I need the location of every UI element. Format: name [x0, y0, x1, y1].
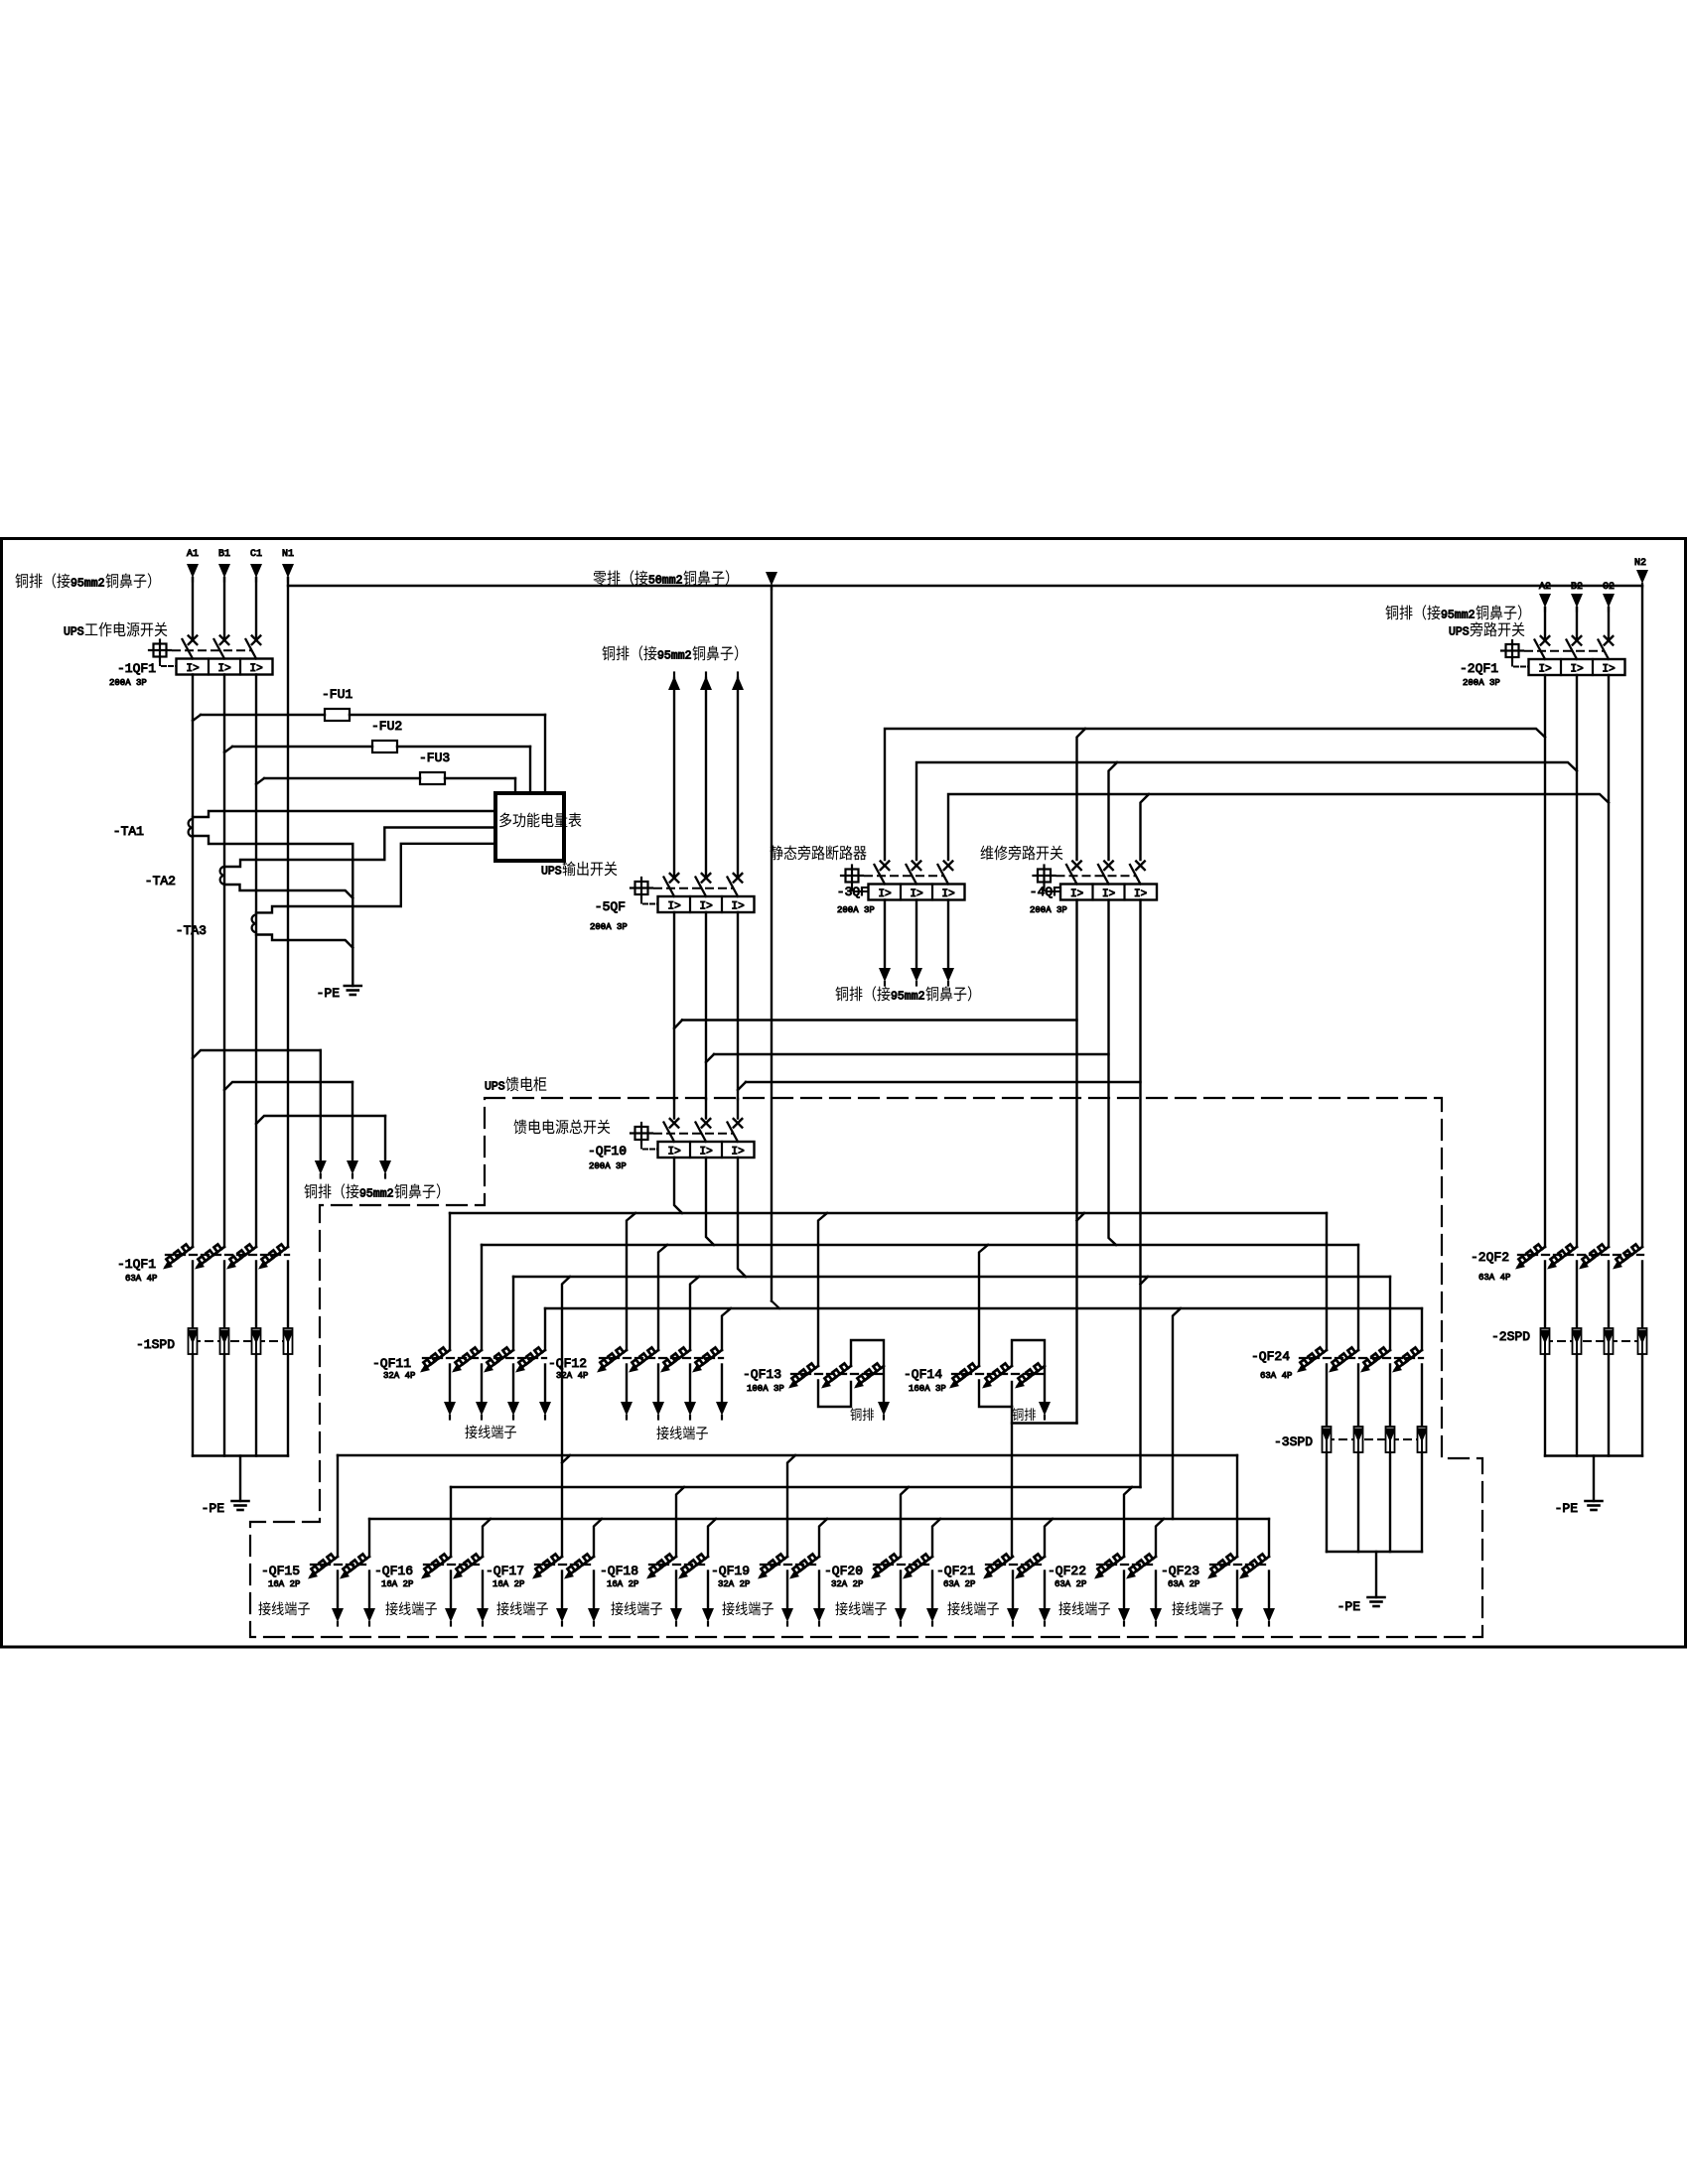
svg-text:-2SPD: -2SPD — [1491, 1329, 1530, 1344]
wire -1SPD to PE x=226 — [223, 1354, 225, 1456]
svg-text:-QF17: -QF17 — [486, 1564, 524, 1578]
dashed boundary UPS feed cabinet — [250, 1098, 1482, 1637]
svg-text:-FU1: -FU1 — [322, 687, 352, 702]
svg-text:-PE: -PE — [317, 986, 341, 1001]
wire QF24 output to SPD x=1368 — [1357, 1365, 1359, 1428]
wires -5QF outputs down to -QF10 — [673, 912, 675, 1099]
busbar label above -5QF — [602, 646, 615, 661]
wire bypass feed B (y=768) — [916, 762, 1577, 860]
svg-text:I>: I> — [1070, 888, 1083, 900]
wire C below -1QF1 — [255, 675, 257, 1248]
svg-text:-QF24: -QF24 — [1251, 1349, 1290, 1364]
breaker -QF16 16A 2P — [424, 1557, 451, 1576]
wire N1 drop full — [287, 578, 289, 1247]
wire bypass feed A (y=734) — [885, 729, 1545, 860]
wire riser busC to branch bus1 / QF17p1 — [562, 1277, 570, 1557]
wire -5QF out C tie — [738, 1082, 746, 1090]
label terminal QF11 — [465, 1425, 477, 1438]
breaker -QF13 100A 3P — [791, 1366, 818, 1386]
bypass feed arrow x=1556 — [1539, 594, 1551, 608]
svg-text:I>: I> — [187, 663, 200, 675]
wire QF24 output to SPD x=1400 — [1389, 1365, 1391, 1428]
QF13 output copper links — [818, 1381, 851, 1408]
breaker -QF19 32A 2P — [761, 1557, 787, 1576]
breaker -1QF1 63A 4P — [166, 1247, 193, 1267]
wire -4QF input A — [1077, 729, 1086, 860]
svg-text:-QF13: -QF13 — [743, 1367, 781, 1382]
svg-text:-FU2: -FU2 — [371, 719, 402, 734]
wire -QF15 output x=372 — [368, 1571, 370, 1611]
CT -TA1 — [189, 819, 193, 837]
wire QF20p1 — [901, 1487, 909, 1557]
label terminal -QF21 — [947, 1601, 959, 1615]
breaker -QF24 63A 4P — [1300, 1350, 1327, 1370]
wire QF14 output tie to bypass column — [1012, 1422, 1077, 1424]
wire -QF22 output x=1164 — [1155, 1571, 1157, 1611]
svg-text:200A 3P: 200A 3P — [1030, 905, 1067, 915]
bypass feed arrow x=1588 — [1571, 594, 1583, 608]
wire QF23p1 — [1236, 1455, 1238, 1557]
surge arrester -2SPD x=1588 — [1573, 1328, 1582, 1354]
wire -2SPD to PE x=1588 — [1576, 1354, 1578, 1456]
busbar label top-left — [15, 574, 28, 589]
svg-text:I>: I> — [1134, 888, 1147, 900]
svg-text:-1QF1: -1QF1 — [117, 1257, 156, 1272]
breaker -QF23 63A 2P — [1210, 1557, 1237, 1576]
breaker -QF17 16A 2P — [535, 1557, 562, 1576]
wire B below -1QF1 — [223, 675, 225, 1248]
wire -4QF out C column — [1139, 900, 1141, 1488]
wire -QF18 output x=681 — [675, 1571, 677, 1611]
wire -4QF input B — [1109, 762, 1118, 860]
svg-text:I>: I> — [1603, 664, 1616, 676]
svg-text:I>: I> — [700, 901, 713, 913]
N tap arrow x=777 — [766, 572, 777, 586]
label copper bar QF13 — [850, 1408, 861, 1421]
wire -QF16 output x=454 — [450, 1571, 452, 1611]
svg-text:200A 3P: 200A 3P — [1463, 678, 1500, 688]
wire -2SPD to PE x=1654 — [1641, 1354, 1643, 1456]
label terminal -QF17 — [496, 1601, 508, 1615]
-QF10 outputs — [674, 1158, 682, 1213]
fuse -FU2 — [224, 747, 232, 752]
wire QF11 output x=517 — [512, 1365, 514, 1404]
wire QF18p2 — [708, 1519, 716, 1557]
surge arrester -3SPD x=1400 — [1386, 1427, 1395, 1452]
surge arrester -2SPD x=1556 — [1541, 1328, 1550, 1354]
bus A phase — [450, 1212, 1327, 1214]
breaker -QF21 63A 2P — [986, 1557, 1013, 1576]
wire -QF21 output x=1020 — [1012, 1571, 1014, 1611]
jog chamfer bypass col at bus A — [1077, 1213, 1085, 1221]
svg-text:I>: I> — [879, 888, 892, 900]
feed arrow at x=290 — [282, 564, 294, 578]
svg-text:100A 3P: 100A 3P — [747, 1384, 784, 1394]
svg-text:200A 3P: 200A 3P — [837, 905, 875, 915]
wire QF11 pole feeds — [449, 1213, 451, 1350]
svg-text:200A 3P: 200A 3P — [589, 1161, 627, 1171]
wire QF16p2 — [483, 1519, 491, 1557]
svg-text:B1: B1 — [218, 549, 230, 560]
wire -QF20 output x=907 — [900, 1571, 902, 1611]
wire B1 drop — [223, 578, 225, 639]
svg-text:-QF16: -QF16 — [374, 1564, 413, 1578]
svg-text:95mm2: 95mm2 — [657, 650, 692, 663]
wire C1 drop — [255, 578, 257, 639]
svg-text:A2: A2 — [1539, 582, 1551, 593]
svg-text:32A 4P: 32A 4P — [383, 1371, 415, 1381]
wire — [223, 1262, 225, 1329]
wire -QF17 output x=566 — [561, 1571, 563, 1611]
svg-text:-PE: -PE — [202, 1501, 225, 1516]
bus C phase — [513, 1276, 1390, 1278]
wire — [705, 678, 707, 878]
label terminal -QF20 — [835, 1601, 847, 1615]
wire -4QF out B column — [1109, 900, 1117, 1246]
ground -PE (3SPD) — [1368, 1596, 1385, 1599]
wire QF17p2 — [594, 1519, 602, 1557]
wire — [673, 1099, 675, 1119]
svg-text:-QF11: -QF11 — [372, 1356, 411, 1371]
wire QF12 pole feeds — [627, 1213, 635, 1350]
wire riser busN to branch bus3 — [1173, 1308, 1181, 1519]
breaker -5QF 200A 3P UPS output switch — [670, 874, 679, 883]
N2 arrow — [1636, 570, 1648, 584]
breaker -4QF 200A 3P maintenance bypass — [1072, 862, 1081, 871]
wire QF15p1 — [337, 1455, 339, 1557]
wire N bus (zero bar) — [288, 585, 1642, 587]
wire QF24 output to SPD x=1432 — [1421, 1365, 1423, 1428]
label terminal -QF18 — [611, 1601, 623, 1615]
svg-text:UPS: UPS — [1449, 626, 1470, 639]
wire -QF19 output x=825 — [818, 1571, 820, 1611]
svg-text:63A 2P: 63A 2P — [943, 1579, 975, 1589]
svg-text:16A 2P: 16A 2P — [492, 1579, 524, 1589]
label terminal -QF23 — [1172, 1601, 1184, 1615]
svg-text:160A 3P: 160A 3P — [909, 1384, 946, 1394]
wire QF22p2 — [1156, 1519, 1164, 1557]
wire -3QF output to copper bar x=891 — [884, 900, 886, 970]
label copper bar QF14 — [1012, 1408, 1023, 1421]
wire -QF23 output x=1246 — [1236, 1571, 1238, 1611]
wire — [673, 678, 675, 878]
wire — [1544, 608, 1546, 640]
svg-text:C2: C2 — [1603, 582, 1615, 593]
svg-text:32A 4P: 32A 4P — [556, 1371, 588, 1381]
surge arrester link dashes -2SPD — [1545, 1340, 1642, 1342]
wire -2SPD to PE x=1620 — [1608, 1354, 1610, 1456]
breaker -2QF1 200A 3P — [1541, 636, 1550, 645]
label terminal -QF22 — [1058, 1601, 1070, 1615]
svg-text:-QF15: -QF15 — [261, 1564, 300, 1578]
feed arrow at x=194 — [187, 564, 199, 578]
svg-text:32A 2P: 32A 2P — [718, 1579, 750, 1589]
svg-text:32A 2P: 32A 2P — [831, 1579, 863, 1589]
CT -TA3 — [252, 915, 256, 933]
surge arrester link dashes -3SPD — [1327, 1438, 1422, 1440]
label terminal -QF19 — [722, 1601, 734, 1615]
svg-text:UPS: UPS — [541, 866, 562, 879]
svg-text:16A 2P: 16A 2P — [381, 1579, 413, 1589]
feed arrow at x=226 — [218, 564, 230, 578]
svg-text:B2: B2 — [1571, 582, 1583, 593]
svg-text:UPS: UPS — [64, 626, 84, 639]
surge arrester -1SPD x=258 — [252, 1328, 261, 1354]
breaker -3QF 200A 3P static bypass — [881, 862, 890, 871]
svg-text:I>: I> — [911, 888, 923, 900]
surge arrester -1SPD x=290 — [284, 1328, 293, 1354]
CT -TA2 — [220, 867, 224, 885]
wire QF24 output to SPD x=1336 — [1326, 1365, 1328, 1428]
wire QF11 output x=485 — [481, 1365, 483, 1404]
svg-text:-TA3: -TA3 — [176, 923, 207, 938]
breaker -QF20 32A 2P — [874, 1557, 901, 1576]
svg-text:I>: I> — [1539, 664, 1552, 676]
wire — [1576, 608, 1578, 640]
wire QF18p1 — [676, 1487, 684, 1557]
branch bus 2 — [451, 1486, 1141, 1488]
svg-text:-TA1: -TA1 — [113, 824, 144, 839]
jog chamfer riser at branch bus1 — [562, 1455, 570, 1463]
busbar label left cabinet — [304, 1184, 317, 1199]
svg-text:I>: I> — [942, 888, 955, 900]
surge arrester -3SPD x=1368 — [1354, 1427, 1363, 1452]
wire -QF20 output x=939 — [931, 1571, 933, 1611]
label terminal -QF16 — [385, 1601, 397, 1615]
ground -PE (right) — [1586, 1500, 1603, 1503]
svg-text:16A 2P: 16A 2P — [607, 1579, 638, 1589]
wire QF24 pole feeds — [1326, 1213, 1328, 1350]
svg-text:95mm2: 95mm2 — [891, 991, 925, 1004]
svg-text:-PE: -PE — [1337, 1599, 1361, 1614]
ground -PE (left) — [232, 1500, 249, 1503]
wire A1 drop — [192, 578, 194, 639]
svg-text:-2QF1: -2QF1 — [1460, 661, 1498, 676]
surge arrester -1SPD x=226 — [220, 1328, 229, 1354]
wire QF14/bypass tie down to QF21 — [1011, 1407, 1013, 1557]
svg-text:-4QF: -4QF — [1030, 885, 1060, 899]
svg-text:-3QF: -3QF — [837, 885, 868, 899]
surge arrester link dashes -1SPD — [193, 1340, 288, 1342]
breaker -QF12 32A 4P — [600, 1350, 627, 1370]
wire — [287, 1262, 289, 1329]
wire -3SPD to PE x=1400 — [1389, 1452, 1391, 1552]
svg-text:95mm2: 95mm2 — [70, 578, 105, 591]
svg-text:-3SPD: -3SPD — [1274, 1434, 1313, 1449]
wire — [737, 678, 739, 878]
bus B phase — [482, 1244, 1358, 1246]
wire -QF18 output x=713 — [707, 1571, 709, 1611]
wire -QF17 output x=598 — [593, 1571, 595, 1611]
svg-text:63A 4P: 63A 4P — [1260, 1371, 1292, 1381]
feed arrow at x=258 — [250, 564, 262, 578]
svg-text:-QF21: -QF21 — [936, 1564, 975, 1578]
wire N drop to feed cabinet — [771, 586, 773, 1301]
wire -1SPD to PE x=258 — [255, 1354, 257, 1456]
svg-text:UPS: UPS — [485, 1081, 505, 1094]
surge arrester -3SPD x=1432 — [1418, 1427, 1427, 1452]
svg-text:200A 3P: 200A 3P — [109, 678, 147, 688]
svg-text:I>: I> — [732, 1147, 745, 1159]
fuse -FU1 — [193, 715, 201, 721]
svg-text:-QF23: -QF23 — [1161, 1564, 1199, 1578]
svg-text:C1: C1 — [250, 549, 262, 560]
svg-text:-TA2: -TA2 — [145, 874, 176, 888]
svg-text:-QF22: -QF22 — [1048, 1564, 1086, 1578]
wire -5QF out B tie — [706, 1054, 714, 1062]
wire -3SPD to PE x=1432 — [1421, 1452, 1423, 1552]
svg-text:-QF18: -QF18 — [600, 1564, 638, 1578]
wire QF13 feed — [818, 1213, 827, 1366]
svg-text:-QF10: -QF10 — [588, 1144, 627, 1159]
svg-text:-1QF1: -1QF1 — [117, 661, 156, 676]
busbar label below -3QF — [835, 987, 848, 1002]
breaker -1QF1 200A 3P — [189, 636, 198, 645]
wire QF23p2 — [1268, 1519, 1270, 1557]
svg-text:I>: I> — [250, 663, 263, 675]
breaker -QF22 63A 2P — [1097, 1557, 1124, 1576]
branch bus 3 (N) — [369, 1518, 1269, 1520]
breaker -QF11 32A 4P — [423, 1350, 450, 1370]
label zero bar — [593, 571, 606, 585]
wire N2 drop — [1641, 586, 1643, 1247]
wire -1SPD to PE x=290 — [287, 1354, 289, 1456]
svg-text:-QF19: -QF19 — [711, 1564, 750, 1578]
svg-text:N1: N1 — [282, 549, 294, 560]
wire -5QF out A to bypass tie — [674, 1021, 682, 1029]
svg-text:50mm2: 50mm2 — [648, 575, 683, 588]
wire QF19p1 — [787, 1455, 795, 1557]
wire -4QF input C — [1141, 794, 1150, 860]
svg-text:I>: I> — [668, 1147, 681, 1159]
svg-text:-1SPD: -1SPD — [136, 1337, 175, 1352]
svg-text:-QF20: -QF20 — [824, 1564, 863, 1578]
svg-text:I>: I> — [1571, 664, 1584, 676]
surge arrester -1SPD x=194 — [189, 1328, 198, 1354]
surge arrester -3SPD x=1336 — [1323, 1427, 1332, 1452]
svg-text:A1: A1 — [187, 549, 199, 560]
jog chamfer bypass col at bus C — [1141, 1277, 1149, 1285]
wire A below -1QF1 — [192, 675, 194, 1248]
svg-text:200A 3P: 200A 3P — [590, 922, 628, 932]
wire — [705, 1099, 707, 1119]
wire -3QF output to copper bar x=923 — [915, 900, 917, 970]
surge arrester -2SPD x=1620 — [1605, 1328, 1614, 1354]
wire QF11 output x=549 — [544, 1365, 546, 1404]
wire -QF22 output x=1132 — [1123, 1571, 1125, 1611]
svg-text:-QF14: -QF14 — [904, 1367, 942, 1382]
wire QF11 output x=453 — [449, 1365, 451, 1404]
UPS output feed arrow x=743 — [732, 676, 744, 690]
svg-text:I>: I> — [732, 901, 745, 913]
breaker -QF18 16A 2P — [649, 1557, 676, 1576]
wire — [1608, 1262, 1610, 1329]
wire QF12 output x=695 — [689, 1365, 691, 1404]
copper bar feeds into cabinet from -1QF1 — [193, 1050, 321, 1058]
breaker -2QF2 63A 4P — [1518, 1247, 1545, 1267]
breaker -QF15 16A 2P — [311, 1557, 338, 1576]
wire A2 column — [1544, 675, 1546, 1247]
wire QF12 output x=631 — [626, 1365, 628, 1404]
svg-text:I>: I> — [700, 1147, 713, 1159]
svg-text:-5QF: -5QF — [595, 899, 626, 914]
wire QF14 feed — [979, 1245, 988, 1366]
svg-text:63A 2P: 63A 2P — [1055, 1579, 1086, 1589]
svg-text:N2: N2 — [1634, 558, 1646, 569]
breaker -QF14 160A 3P — [952, 1366, 979, 1386]
wire QF19p2 — [819, 1519, 827, 1557]
wire -QF21 output x=1052 — [1044, 1571, 1046, 1611]
label terminal QF12 — [656, 1426, 668, 1439]
surge arrester -2SPD x=1654 — [1638, 1328, 1647, 1354]
fuse -FU3 — [256, 778, 264, 784]
wire — [1608, 608, 1610, 640]
wire -3SPD to PE x=1336 — [1326, 1452, 1328, 1552]
wire — [255, 1262, 257, 1329]
wire -3QF output to copper bar x=955 — [947, 900, 949, 970]
meter box multifunction power meter — [495, 793, 564, 861]
drawing border frame — [2, 539, 1686, 1648]
wire — [737, 1099, 739, 1119]
bypass feed arrow x=1620 — [1603, 594, 1615, 608]
wire C2 column — [1608, 675, 1610, 1247]
wire QF22p1 — [1124, 1487, 1132, 1557]
svg-text:63A 4P: 63A 4P — [125, 1274, 157, 1284]
svg-text:-FU3: -FU3 — [419, 751, 450, 765]
svg-text:-QF12: -QF12 — [548, 1356, 587, 1371]
wire -4QF out A column — [1075, 900, 1077, 1424]
wire -1SPD to PE x=194 — [192, 1354, 194, 1456]
wire QF12 output x=663 — [657, 1365, 659, 1404]
wire B2 column — [1576, 675, 1578, 1247]
wire QF21p2 — [1045, 1519, 1053, 1557]
wire -3SPD to PE x=1368 — [1357, 1452, 1359, 1552]
QF14 output copper links — [979, 1381, 1012, 1408]
svg-text:I>: I> — [668, 901, 681, 913]
wire — [1544, 1262, 1546, 1329]
wire — [1641, 1262, 1643, 1329]
UPS output feed arrow x=711 — [700, 676, 712, 690]
wire QF16p1 — [450, 1487, 452, 1557]
busbar label top-right — [1385, 606, 1398, 620]
wire -2SPD to PE x=1556 — [1544, 1354, 1546, 1456]
wire QF15p2 — [368, 1519, 370, 1557]
svg-text:I>: I> — [1102, 888, 1115, 900]
wire QF20p2 — [932, 1519, 940, 1557]
wire -QF19 output x=793 — [786, 1571, 788, 1611]
svg-text:I>: I> — [218, 663, 231, 675]
svg-text:-PE: -PE — [1555, 1501, 1579, 1516]
svg-text:16A 2P: 16A 2P — [268, 1579, 300, 1589]
wire -QF23 output x=1278 — [1268, 1571, 1270, 1611]
wire QF12 output x=727 — [721, 1365, 723, 1404]
svg-text:-2QF2: -2QF2 — [1471, 1250, 1509, 1265]
bus N — [545, 1307, 1422, 1309]
label terminal -QF15 — [258, 1601, 270, 1615]
wire bypass feed C (y=800) — [948, 794, 1609, 860]
wire -QF15 output x=340 — [337, 1571, 339, 1611]
branch bus 1 — [338, 1454, 1237, 1456]
ground -PE meter — [345, 985, 361, 988]
svg-text:63A 2P: 63A 2P — [1168, 1579, 1199, 1589]
svg-text:95mm2: 95mm2 — [1441, 610, 1476, 622]
svg-text:63A 4P: 63A 4P — [1478, 1273, 1510, 1283]
svg-text:95mm2: 95mm2 — [359, 1188, 394, 1201]
wire — [192, 1262, 194, 1329]
UPS output feed arrow x=679 — [668, 676, 680, 690]
wire -QF16 output x=486 — [482, 1571, 484, 1611]
wire — [1576, 1262, 1578, 1329]
